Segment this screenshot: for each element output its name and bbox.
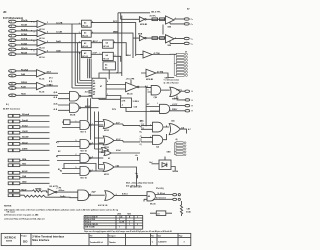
wire from U3a xyxy=(113,43,126,56)
svg-text:HC-14: HC-14 xyxy=(39,37,45,40)
inverter U6c xyxy=(143,51,160,58)
wire TELW with resistor xyxy=(20,190,33,192)
wire N1 inputs xyxy=(62,122,80,127)
wire XClkB xyxy=(16,44,37,46)
svg-text:ChB: ChB xyxy=(22,176,27,178)
wire G1 inputs xyxy=(146,88,151,93)
bus vertical net1 xyxy=(71,24,73,88)
wire N2 inputs xyxy=(57,142,80,147)
terminal block TB1 row8 xyxy=(176,74,187,76)
buffer U2c HC-02 xyxy=(82,41,92,48)
svg-text:2: 2 xyxy=(115,55,116,57)
wire U12 out b xyxy=(153,198,173,200)
wire RLB xyxy=(16,87,37,89)
resistor R4 xyxy=(33,190,46,192)
svg-text:HC-04: HC-04 xyxy=(103,57,109,60)
connector pin DRML xyxy=(185,110,193,113)
connector pin J3-6 xyxy=(8,143,20,146)
svg-text:3: 3 xyxy=(11,31,12,33)
svg-text:MC02: MC02 xyxy=(104,130,109,132)
buffer U3a HC-04 xyxy=(102,40,113,48)
pin numbers group1 xyxy=(34,18,177,197)
bus vertical net3 xyxy=(77,43,79,83)
svg-text:4T 4: 4T 4 xyxy=(49,77,52,80)
terminal block TB1 row2 xyxy=(176,56,187,58)
svg-text:RClkB: RClkB xyxy=(21,34,28,36)
receiver U1f xyxy=(37,82,52,93)
wire O4 out xyxy=(114,167,137,187)
wire N3 inputs xyxy=(57,156,80,161)
svg-text:D4A: D4A xyxy=(21,73,26,76)
connector pin J2-3 xyxy=(9,82,16,85)
svg-text:3: 3 xyxy=(175,37,176,39)
svg-text:NRA: NRA xyxy=(22,158,27,161)
svg-text:4T, TPL: 4T, TPL xyxy=(150,15,157,18)
wire SDataW xyxy=(20,137,50,139)
wire RCC from U2a xyxy=(91,23,136,56)
wire D4A xyxy=(16,75,37,77)
svg-text:+5v: +5v xyxy=(135,155,138,157)
svg-text:TELW: TELW xyxy=(21,189,26,191)
wire U9 out xyxy=(57,191,78,193)
nand N4 xyxy=(80,167,91,180)
wire RClkB xyxy=(16,35,37,37)
svg-text:MC4 B: MC4 B xyxy=(70,114,76,117)
terminal block TB2 row1 xyxy=(176,142,186,144)
svg-text:HC-14: HC-14 xyxy=(39,47,45,50)
wire U11 out long xyxy=(115,195,148,201)
svg-text:2: 2 xyxy=(79,32,80,34)
svg-text:4 CP': 4 CP' xyxy=(93,52,98,55)
wire XDataB xyxy=(16,25,37,27)
wire TB2 feed xyxy=(175,143,177,155)
svg-text:MAO: MAO xyxy=(127,54,132,57)
terminal block TB1 row3 xyxy=(176,59,187,61)
nand U10 xyxy=(78,190,90,200)
svg-text:b) FU denotes of wire resp pad: b) FU denotes of wire resp pads on, 4B4 xyxy=(4,214,38,217)
bus vertical net2 xyxy=(74,33,76,85)
terminal block TB1 row5 xyxy=(176,65,187,67)
svg-text:XDat'A: XDat'A xyxy=(21,19,28,22)
svg-text:LS04: LS04 xyxy=(117,213,121,216)
svg-text:Designer: Designer xyxy=(109,236,116,238)
IC U4 latch box xyxy=(103,62,115,70)
connector pin J1-1 xyxy=(9,20,16,23)
svg-text:MC? 41: MC? 41 xyxy=(81,177,87,180)
or gate O3 xyxy=(102,148,112,156)
terminal block TB2 row2 xyxy=(176,145,186,147)
wire into U8 xyxy=(99,96,121,100)
connector pin J2-1 xyxy=(9,70,16,73)
wire MBB from U2b xyxy=(91,33,133,58)
wire U2c to U3a xyxy=(91,42,102,44)
svg-text:K(-: K(- xyxy=(140,131,143,133)
svg-text:SDD/SD: SDD/SD xyxy=(6,240,13,242)
nand E1 xyxy=(70,91,92,101)
wire PCMD xyxy=(108,70,110,79)
svg-text:SDatW: SDatW xyxy=(22,136,29,139)
buffer U2d HC-02 xyxy=(82,51,92,58)
svg-text:9: 9 xyxy=(11,71,12,73)
connector pin J3-14 xyxy=(8,194,20,197)
svg-text:HC-02: HC-02 xyxy=(82,35,87,37)
wire NRA xyxy=(20,160,50,162)
svg-text:9: 9 xyxy=(76,140,77,142)
svg-text:L DC2': L DC2' xyxy=(172,104,178,106)
wire SClk2 xyxy=(20,126,50,128)
svg-text:M. Switched: M. Switched xyxy=(156,197,166,200)
svg-text:MC-04: MC-04 xyxy=(127,93,132,96)
svg-text:Page: Page xyxy=(179,236,183,238)
svg-text:1: 1 xyxy=(157,103,158,105)
wire U10 out xyxy=(90,194,105,196)
receiver U1c HC-14 xyxy=(31,39,46,49)
svg-text:SDataA: SDataA xyxy=(22,113,30,116)
wire to driver ch2 xyxy=(146,37,165,39)
svg-text:1: 1 xyxy=(11,22,12,24)
svg-text:MOB: MOB xyxy=(138,33,143,35)
connector pin J3-1 xyxy=(8,114,20,117)
inverter U9 xyxy=(48,189,57,196)
svg-text:6: 6 xyxy=(11,45,12,47)
svg-text:JD: JD xyxy=(3,10,6,14)
svg-text:3: 3 xyxy=(184,241,185,243)
svg-text:TES: TES xyxy=(22,164,27,166)
svg-text:MC02: MC02 xyxy=(104,174,109,176)
IC U5 pin stubs xyxy=(89,81,93,96)
svg-text:2: 2 xyxy=(47,22,48,24)
svg-text:9: 9 xyxy=(34,50,35,52)
wire G5 out xyxy=(180,129,186,133)
connector pin DC2 xyxy=(185,104,193,107)
wire G3 inputs xyxy=(146,107,159,112)
wire top verticals right xyxy=(109,13,150,76)
or gate O4 xyxy=(103,163,114,172)
connector pin J3-9 xyxy=(8,164,20,167)
or gate G2 xyxy=(170,87,181,100)
svg-text:C+: C+ xyxy=(191,24,193,26)
svg-text:6: 6 xyxy=(47,41,48,43)
wire RCLKA xyxy=(16,70,37,72)
connector pin video out b xyxy=(185,99,193,102)
wire N4 inputs xyxy=(62,169,80,174)
connector pin J2-5 xyxy=(9,94,16,97)
svg-text:HC-04: HC-04 xyxy=(39,90,44,93)
receiver U1d HC-14 xyxy=(31,49,46,59)
svg-text:SClk2: SClk2 xyxy=(22,125,28,127)
connector pin J3-11 xyxy=(8,176,20,179)
svg-text:RDat'A: RDat'A xyxy=(21,47,28,50)
wire GND xyxy=(20,182,50,184)
wire U5 to opamp xyxy=(106,85,126,90)
nand N3 xyxy=(80,154,91,163)
svg-text:2: 2 xyxy=(137,224,138,226)
connector pin J3-4 xyxy=(8,131,20,134)
component box U8 xyxy=(121,98,132,108)
svg-text:C+: C+ xyxy=(191,43,193,45)
wire E1 out xyxy=(81,95,92,97)
svg-text:NOTES:: NOTES: xyxy=(4,206,12,208)
wire DAVE xyxy=(20,149,50,151)
connector pin J1-3 xyxy=(9,30,16,33)
connector pin video 2a xyxy=(184,37,193,40)
wire U1f out xyxy=(46,85,59,87)
small box J xyxy=(156,211,166,216)
connector pin J3-10 xyxy=(8,171,20,174)
receiver U1b HC-14 xyxy=(31,30,46,40)
svg-text:2: 2 xyxy=(150,136,151,138)
wire box J xyxy=(150,212,172,214)
svg-text:1: 1 xyxy=(150,124,151,126)
svg-text:-2: -2 xyxy=(122,104,124,106)
svg-text:7400: 7400 xyxy=(127,213,131,216)
connector pin J2-2 xyxy=(9,74,16,77)
terminal block TB1 row6 xyxy=(176,68,187,70)
connector pin J1-8 xyxy=(9,53,16,56)
svg-text:4: 4 xyxy=(11,35,12,38)
or gate O1 xyxy=(103,120,114,133)
svg-text:R.LB: R.LB xyxy=(21,86,26,88)
connector pin video out xyxy=(185,90,194,93)
svg-text:1: 1 xyxy=(107,94,108,96)
resistor R2 xyxy=(152,37,158,40)
svg-text:13 RB #: 13 RB # xyxy=(133,101,140,103)
svg-text:2: 2 xyxy=(114,41,115,43)
terminal block TB2 row4 xyxy=(176,151,186,153)
terminal block TB1 row7 xyxy=(176,71,187,73)
svg-text:4B LP: 4B LP xyxy=(93,40,99,43)
wire G4 inputs xyxy=(141,126,153,130)
wire CmdB to buffer xyxy=(46,32,82,34)
connector pin J1-2 xyxy=(9,25,16,28)
wire G3 out a xyxy=(170,105,185,107)
svg-text:8: 8 xyxy=(11,54,12,56)
svg-text:OK round: OK round xyxy=(7,212,15,214)
svg-text:Rev: Rev xyxy=(151,236,154,238)
wire opto top xyxy=(164,157,166,161)
svg-text:File: File xyxy=(90,236,93,238)
opto isolator U13 xyxy=(159,160,171,170)
wire TES xyxy=(20,164,50,166)
resistor R3 pullup xyxy=(130,80,132,85)
wire bus to U5 pins xyxy=(72,81,89,89)
wire O2 out xyxy=(114,141,140,142)
buffer U3b HC-04 xyxy=(102,52,113,60)
terminal block TB1 row4 xyxy=(176,62,187,64)
nand N1 xyxy=(80,121,91,134)
svg-text:HC-14: HC-14 xyxy=(39,28,45,31)
parts table xyxy=(84,213,143,230)
svg-text:4 A4: 4 A4 xyxy=(116,164,120,167)
wire O1 out xyxy=(114,124,140,126)
svg-text:GND: GND xyxy=(22,182,27,184)
wire A3 out xyxy=(141,73,174,78)
input box N1 xyxy=(64,120,71,125)
svg-text:XEROX: XEROX xyxy=(4,236,17,240)
svg-text:XClkB: XClkB xyxy=(21,43,27,45)
wire verticals into or gates xyxy=(88,98,104,169)
svg-text:3: 3 xyxy=(175,18,176,20)
svg-text:MCM-B5: MCM-B5 xyxy=(140,24,147,26)
op-amp U7 xyxy=(126,82,139,95)
svg-text:41: 41 xyxy=(93,80,95,83)
receiver U1e xyxy=(37,70,52,81)
svg-text:4C10 B: 4C10 B xyxy=(85,91,92,94)
svg-text:A) 4L: A) 4L xyxy=(54,103,58,106)
svg-text:1,4,7B: 1,4,7B xyxy=(119,221,125,224)
connector pin J1-6 xyxy=(9,44,16,47)
wire G6 inputs xyxy=(141,138,153,142)
svg-text:WDLB: WDLB xyxy=(21,82,28,84)
bus vertical net4 xyxy=(79,52,81,80)
svg-text:TERMA: TERMA xyxy=(35,188,42,191)
nand N2 xyxy=(80,140,91,153)
svg-text:GB, 4 TPL: GB, 4 TPL xyxy=(151,10,161,13)
connector pin J3-8 xyxy=(8,159,20,162)
wire XClk'A xyxy=(16,39,37,41)
svg-text:4 HC 04 1-B: 4 HC 04 1-B xyxy=(98,204,108,207)
svg-text:C+: C+ xyxy=(191,38,193,40)
buffer U2b HC-02 xyxy=(82,30,92,37)
wire opto output xyxy=(171,167,175,172)
wire Cmd'B to buffer xyxy=(46,23,82,25)
svg-text:C+: C+ xyxy=(191,19,193,21)
receiver U1a HC-14 xyxy=(31,21,46,31)
svg-text:RCC: RCC xyxy=(113,21,118,23)
svg-text:2: 2 xyxy=(11,26,12,28)
svg-text:+5v: +5v xyxy=(135,173,138,175)
svg-text:DO: DO xyxy=(23,239,28,243)
connector pin out b xyxy=(173,198,181,200)
svg-text:2: 2 xyxy=(137,217,138,219)
wire U7 out xyxy=(139,86,151,89)
svg-text:8: 8 xyxy=(47,50,48,52)
IC U5 controller xyxy=(92,78,106,98)
svg-text:XDatB: XDatB xyxy=(21,24,28,27)
svg-text:11: 11 xyxy=(11,84,13,86)
svg-text:4ed = Mark 1 Data: 4ed = Mark 1 Data xyxy=(126,184,142,187)
wire RDataB xyxy=(16,53,37,55)
svg-text:a) All signals with names of t: a) All signals with names of the form su… xyxy=(4,208,118,211)
svg-text:A.): A.) xyxy=(56,141,59,144)
wire video out 2a xyxy=(174,38,184,40)
svg-text:M. MCool: M. MCool xyxy=(158,193,166,195)
terminal block TB2 row3 xyxy=(176,148,186,150)
svg-text:MC? 41: MC? 41 xyxy=(81,150,87,153)
svg-text:T C): T C) xyxy=(141,128,145,130)
svg-text:CmdB: CmdB xyxy=(56,32,62,34)
svg-text:HC-02: HC-02 xyxy=(82,56,87,58)
svg-text:5: 5 xyxy=(11,40,12,42)
inverter U6b xyxy=(138,33,146,40)
resistor R1 xyxy=(152,18,158,21)
wire video out 2b xyxy=(170,41,184,43)
svg-text:MC-04: MC-04 xyxy=(173,170,178,173)
svg-text:RDatB: RDatB xyxy=(21,52,28,55)
svg-text:2: 2 xyxy=(79,53,80,55)
wire E2 inputs xyxy=(58,105,70,110)
svg-text:FTe HOQ: FTe HOQ xyxy=(156,188,164,190)
wire N4 out xyxy=(91,170,103,172)
connector pin J3-3 xyxy=(8,126,20,129)
svg-text:1: 1 xyxy=(100,41,101,43)
connector pin J3-13 xyxy=(8,190,20,193)
svg-text:13: 13 xyxy=(11,95,13,97)
connector pin video 1a xyxy=(184,18,193,21)
svg-text:1: 1 xyxy=(92,170,93,172)
wire ClkB to buffer xyxy=(46,51,82,53)
wire WDLB xyxy=(16,83,37,85)
wire G2 out b xyxy=(177,96,185,100)
svg-text:Thacker: Thacker xyxy=(109,242,116,244)
wire N1 out xyxy=(91,124,103,126)
svg-text:ADLE: ADLE xyxy=(22,170,28,173)
svg-text:1: 1 xyxy=(34,22,35,24)
svg-text:GmBq: GmBq xyxy=(60,196,65,198)
svg-text:1: 1 xyxy=(92,124,93,126)
wire RData'A xyxy=(16,49,37,51)
svg-text:HC-14: HC-14 xyxy=(39,56,45,59)
wire N4 feedback loop xyxy=(64,164,96,172)
svg-text:RClk'A: RClk'A xyxy=(21,28,28,31)
svg-text:HC-02: HC-02 xyxy=(82,25,87,27)
svg-text:3: 3 xyxy=(34,32,35,34)
wire G1 out xyxy=(161,89,170,91)
svg-text:HC-04: HC-04 xyxy=(103,45,109,48)
svg-text:1: 1 xyxy=(165,18,166,20)
svg-text:7: 7 xyxy=(11,49,12,51)
wire ADLE xyxy=(20,172,50,174)
wire RXD wavy xyxy=(20,195,78,198)
and gate G4 xyxy=(153,122,163,132)
wire U1e out xyxy=(46,72,59,74)
wire E1 inputs xyxy=(58,94,70,99)
resistor R5 vertical xyxy=(180,201,182,216)
wire O3 out xyxy=(111,152,140,154)
wire to driver ch1 xyxy=(146,18,165,20)
wire G3 out b xyxy=(170,109,185,111)
svg-text:50B 74 CMD: 50B 74 CMD xyxy=(85,226,96,229)
svg-text:1 Video: 1 Video xyxy=(176,89,182,91)
svg-text:4) 4L: 4) 4L xyxy=(54,91,58,94)
svg-text:MBB: MBB xyxy=(113,31,118,33)
nand E2 xyxy=(70,103,91,117)
svg-text:MC-04: MC-04 xyxy=(150,203,155,206)
svg-text:Niles Interface: Niles Interface xyxy=(32,239,50,242)
wire ChB xyxy=(20,177,50,179)
connector pin J1-7 xyxy=(9,48,16,51)
driver A2 ch2 xyxy=(166,35,175,47)
or gate O2 xyxy=(103,136,114,149)
svg-text:Cmd'B: Cmd'B xyxy=(56,22,63,24)
wire ClkU2 xyxy=(20,132,50,134)
wire DataB to buffer xyxy=(46,42,82,44)
wire SDataA xyxy=(20,115,50,117)
svg-text:12: 12 xyxy=(11,88,13,90)
terminal block TB2 row5 xyxy=(176,154,186,156)
wire video out 1a xyxy=(174,18,184,20)
svg-text:DAVE: DAVE xyxy=(22,148,28,151)
connector pin video 2b xyxy=(184,42,193,45)
svg-text:C(-: C(- xyxy=(140,138,143,140)
svg-text:4C4A: 4C4A xyxy=(186,210,191,213)
connector pin J1-4 xyxy=(9,34,16,37)
svg-text:64 IKT Connector: 64 IKT Connector xyxy=(3,107,20,110)
terminal block TB1 row1 xyxy=(176,53,187,55)
svg-text:RCLKA: RCLKA xyxy=(21,68,29,71)
svg-text:C(-: C(- xyxy=(140,144,143,146)
wire U12 out a xyxy=(156,194,173,196)
